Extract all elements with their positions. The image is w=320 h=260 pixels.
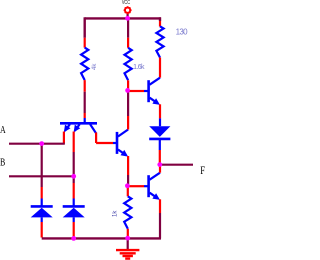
- svg-text:1k: 1k: [113, 210, 119, 217]
- svg-text:A: A: [0, 124, 6, 137]
- svg-text:1.6k: 1.6k: [133, 64, 145, 71]
- svg-text:130: 130: [176, 28, 188, 37]
- svg-text:VCC: VCC: [122, 0, 131, 5]
- svg-text:B: B: [0, 157, 5, 170]
- svg-text:F: F: [200, 165, 205, 178]
- svg-text:4k: 4k: [92, 63, 98, 70]
